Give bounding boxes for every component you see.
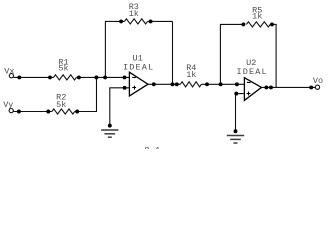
resistor R3 — [125, 19, 148, 24]
wire R5 right lead and riser to U2 output — [270, 24, 276, 87]
junction dot R1 left — [48, 75, 52, 79]
junction dot R2 right — [75, 110, 79, 114]
junction dot U1 ground — [108, 124, 112, 128]
wire R2 to summing node riser — [75, 77, 97, 111]
node Vo terminal circle — [315, 85, 319, 89]
node Vy terminal circle — [9, 109, 13, 113]
resistor R4 — [180, 82, 201, 87]
wire R4 to U2 minus input — [201, 83, 244, 85]
junction dot R2 left — [46, 110, 50, 114]
ground under U2 — [227, 136, 244, 144]
junction dot summing node Vy riser — [94, 75, 98, 79]
resistor R5 — [246, 22, 270, 27]
junction dot Vx pin — [17, 75, 21, 79]
junction dot U2 output b — [269, 85, 273, 89]
junction dot U1 minus pin — [123, 75, 127, 79]
wire R5 feedback left riser — [220, 24, 243, 84]
junction dot R4 left — [175, 82, 179, 86]
wire R3 right lead — [148, 20, 173, 22]
wire Vx to R1 — [14, 76, 54, 78]
wire R3 right riser to U1 output — [172, 21, 174, 84]
junction dot U2 output a — [264, 85, 268, 89]
junction dot Vo pin — [309, 85, 313, 89]
op-amp U1 — [129, 72, 148, 96]
svg-text:Vx: Vx — [4, 67, 14, 77]
wire U1 plus input — [110, 88, 130, 126]
wire R3 feedback left riser — [105, 21, 121, 77]
U1 plus pin mark — [132, 87, 136, 89]
junction dot R5 right top — [270, 22, 274, 26]
resistor R2 — [52, 109, 75, 114]
svg-text:Vo: Vo — [313, 76, 323, 86]
wire U2 output to Vo — [262, 86, 316, 88]
wire U1 output to R4 — [148, 83, 180, 85]
svg-text:8-4: 8-4 — [144, 146, 159, 150]
junction dot R3 riser at output — [171, 82, 175, 86]
svg-text:5k: 5k — [58, 64, 68, 74]
svg-text:1k: 1k — [186, 70, 196, 80]
junction dot R1 right — [77, 75, 81, 79]
node Vx terminal circle — [9, 74, 13, 78]
junction dot U2 ground — [234, 129, 238, 133]
junction dot R3 left — [119, 19, 123, 23]
ground under U1 — [101, 130, 118, 137]
wire R1 to U1 minus input — [76, 76, 129, 78]
svg-text:IDEAL: IDEAL — [236, 67, 267, 77]
U2 minus pin mark — [247, 82, 251, 84]
U1 minus pin mark — [132, 77, 136, 79]
wire Vy to R2 — [13, 111, 52, 113]
svg-text:1k: 1k — [252, 12, 262, 22]
wire R3 left lead — [121, 20, 124, 22]
junction dot R3 right — [149, 19, 153, 23]
junction dot U2 minus pin — [235, 82, 239, 86]
junction dot U2 plus pin — [234, 92, 238, 96]
resistor R1 — [54, 75, 77, 80]
junction dot R5 riser at R4 line — [219, 82, 223, 86]
svg-text:1k: 1k — [129, 9, 139, 19]
wire U2 plus input — [236, 94, 245, 132]
junction dot Vy pin — [17, 110, 21, 114]
op-amp U2 — [244, 78, 261, 101]
junction dot U1 plus pin — [123, 86, 127, 90]
svg-text:IDEAL: IDEAL — [123, 62, 154, 72]
svg-text:5k: 5k — [56, 100, 66, 110]
junction dot R3 riser — [103, 75, 107, 79]
svg-text:Vy: Vy — [3, 100, 13, 110]
junction dot R5 left top — [241, 22, 245, 26]
junction dot R4 right — [205, 82, 209, 86]
junction dot U1 output — [152, 82, 156, 86]
U2 plus pin mark — [247, 93, 251, 95]
